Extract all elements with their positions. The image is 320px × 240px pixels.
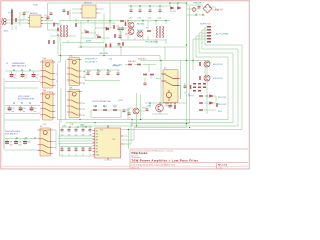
svg-text:OFFSET: OFFSET (112, 65, 121, 67)
svg-text:OUT: OUT (112, 139, 115, 141)
svg-text:MJL21193: MJL21193 (213, 78, 223, 80)
svg-text:Rev 1.0.0: Rev 1.0.0 (218, 165, 228, 167)
svg-text:C29: C29 (18, 142, 21, 144)
svg-text:C41: C41 (68, 135, 71, 137)
svg-text:C44: C44 (89, 135, 92, 137)
svg-text:AMP-MODULE: AMP-MODULE (12, 65, 27, 68)
svg-text:IN2: IN2 (96, 133, 99, 135)
svg-text:TR2-TALEMA: TR2-TALEMA (145, 40, 158, 43)
svg-text:FWB-RECT: FWB-RECT (193, 2, 205, 4)
svg-text:BD139: BD139 (137, 24, 144, 26)
svg-text:3: 3 (56, 81, 57, 83)
svg-text:R51 10R: R51 10R (218, 97, 227, 99)
svg-text:GND: GND (80, 124, 85, 126)
svg-text:C20: C20 (14, 75, 17, 77)
svg-text:R52 10R: R52 10R (218, 104, 227, 106)
svg-text:IN6: IN6 (96, 145, 99, 147)
svg-text:NE5532: NE5532 (84, 3, 92, 5)
svg-text:BUTTERWORTH: BUTTERWORTH (18, 99, 35, 101)
svg-text:VOUT-OFFSET-DET: VOUT-OFFSET-DET (92, 101, 112, 103)
svg-text:C22: C22 (36, 75, 39, 77)
svg-text:LM3886-68W: LM3886-68W (12, 63, 25, 65)
svg-text:C43: C43 (82, 135, 85, 137)
svg-text:C47: C47 (75, 147, 78, 149)
svg-text:IN7: IN7 (96, 148, 99, 150)
svg-text:C49: C49 (89, 147, 92, 149)
svg-text:IN4: IN4 (96, 139, 99, 141)
svg-text:Rail +V: Rail +V (215, 9, 223, 12)
svg-text:C40: C40 (61, 135, 64, 137)
svg-text:C45: C45 (61, 147, 64, 149)
svg-text:DC-DETECT: DC-DETECT (85, 61, 98, 63)
svg-text:IN1: IN1 (96, 130, 99, 132)
svg-text:IN8: IN8 (96, 151, 99, 153)
svg-text:74HC4051-MUX: 74HC4051-MUX (5, 131, 21, 133)
svg-text:C21: C21 (25, 75, 28, 77)
svg-text:R31 4k7: R31 4k7 (138, 58, 147, 60)
svg-text:IC1A: IC1A (33, 3, 38, 6)
svg-text:100n: 100n (9, 144, 13, 146)
svg-text:Sheet: 1/1: Sheet: 1/1 (132, 167, 140, 170)
svg-text:C42: C42 (75, 135, 78, 137)
svg-text:C28: C28 (9, 142, 12, 144)
svg-text:C24: C24 (12, 108, 15, 110)
svg-text:C26: C26 (34, 108, 37, 110)
svg-text:1 of 1: 1 of 1 (218, 168, 222, 170)
svg-text:IN3: IN3 (96, 136, 99, 138)
svg-text:SPKR-PROT: SPKR-PROT (85, 59, 98, 61)
svg-text:70W Power Amplifier + Low Pass: 70W Power Amplifier + Low Pass Filter (132, 158, 200, 162)
svg-text:8CH-SELECT: 8CH-SELECT (5, 134, 19, 136)
svg-text:R30 4k7: R30 4k7 (128, 61, 137, 63)
svg-text:BD140: BD140 (137, 30, 144, 32)
svg-text:600R: 600R (86, 40, 91, 42)
svg-text:LPF-2.2KHZ: LPF-2.2KHZ (18, 96, 30, 98)
svg-text:C48: C48 (82, 147, 85, 149)
svg-text:+15V: +15V (118, 100, 124, 102)
svg-text:C25: C25 (23, 108, 26, 110)
svg-text:+35V: +35V (146, 105, 152, 107)
svg-text:NE5532: NE5532 (30, 13, 38, 15)
svg-text:P1-IN: P1-IN (8, 12, 14, 14)
svg-text:AC-IN-25VAC: AC-IN-25VAC (216, 32, 229, 35)
svg-text:SUPPLY-IN: SUPPLY-IN (200, 24, 211, 26)
svg-text:Date: 4-Sep-2011 21:18:12 Dr: Date: 4-Sep-2011 21:18:12 Drawn with EAG… (132, 163, 176, 166)
svg-text:MJL21194: MJL21194 (213, 64, 223, 66)
svg-text:C46: C46 (68, 147, 71, 149)
svg-text:GND-REF: GND-REF (99, 53, 109, 55)
svg-text:G2R-2A: G2R-2A (165, 105, 173, 108)
svg-text:100n: 100n (18, 144, 22, 146)
svg-text:D1 D2: D1 D2 (170, 11, 177, 13)
svg-text:AUX: AUX (4, 29, 9, 32)
svg-text:S3: S3 (40, 126, 42, 128)
svg-text:2: 2 (56, 74, 57, 76)
svg-text:IN5: IN5 (96, 142, 99, 144)
